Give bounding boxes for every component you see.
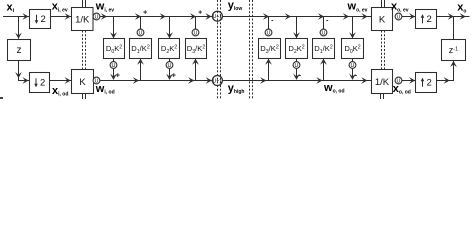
- wire D1/K2 right input rise: [323, 59, 325, 81]
- wire mid arrow bottom 1: [133, 77, 139, 84]
- svg-text:U: U: [95, 14, 99, 20]
- wire D0K2 right input drop: [352, 17, 354, 39]
- wire arrowhead into z: [15, 33, 22, 39]
- wire U to up2 top: [402, 16, 416, 18]
- upsampler bottom &uarr;2: [416, 73, 437, 93]
- svg-text:+: +: [143, 10, 147, 17]
- wire down2 to K bottom: [50, 80, 72, 82]
- wire U to bottom merge: [113, 68, 115, 79]
- corner artifact bottom-left: [0, 97, 3, 99]
- svg-text:2: 2: [40, 78, 45, 89]
- multiplier D3/K2 right: [259, 39, 281, 59]
- scaler 1/K top left: [72, 8, 94, 31]
- rounding circle U above D3/K2 right: [265, 29, 272, 36]
- wire up2 bottom to riser corner: [437, 61, 454, 81]
- rounding circle U below D0K2 right: [349, 62, 356, 69]
- wire D1/K2 left input rise: [140, 59, 142, 81]
- wire arrowhead into D2K2 left top: [166, 32, 173, 38]
- wire mid arrow bottom right 1: [260, 77, 266, 84]
- svg-text:U: U: [194, 30, 198, 36]
- svg-text:U: U: [168, 63, 172, 69]
- wire z-1 up to output merge: [453, 17, 455, 39]
- scaler 1/K bottom right: [372, 70, 393, 94]
- wire D2K2 left input drop: [169, 17, 171, 39]
- wire arrowhead into up2 bottom: [409, 77, 415, 84]
- wire U to bottom merge: [296, 68, 298, 79]
- wire U to up2 bottom: [402, 80, 416, 82]
- svg-text:2: 2: [41, 14, 46, 25]
- svg-text:K: K: [379, 14, 386, 25]
- svg-text:2: 2: [427, 78, 432, 89]
- ticks above K right: [382, 0, 385, 8]
- svg-text:U: U: [397, 14, 401, 20]
- wire merge arrowhead at top rail: [318, 13, 324, 20]
- wire mid arrow top 1: [101, 13, 107, 20]
- wire U to top merge: [268, 17, 270, 29]
- wire merge arrowhead at output junction: [448, 13, 454, 20]
- ticks below 1/K bottom right: [381, 94, 384, 100]
- rounding circle U after K right: [395, 13, 402, 20]
- multiplier D3/K2 left: [186, 39, 207, 59]
- wire arrowhead down before corner: [15, 72, 22, 78]
- wire U to top merge: [323, 17, 325, 29]
- wire mid arrow top right 1: [285, 13, 291, 20]
- wire arrowhead into 1/K: [65, 13, 71, 20]
- wire final output arrowhead: [460, 13, 466, 20]
- wire merge arrowhead at bottom rail: [166, 74, 173, 80]
- dashed pair left between scaling boxes: [83, 31, 86, 70]
- wire U to top merge: [195, 17, 197, 29]
- rounding circle U below D2K2 left: [166, 62, 173, 69]
- downsampler top &darr;2: [30, 10, 51, 29]
- wire arrowhead into D0K2 left top: [110, 32, 117, 38]
- svg-text:1/K: 1/K: [375, 77, 390, 88]
- svg-text:+: +: [198, 10, 202, 17]
- wire down2 to 1/K: [51, 16, 72, 18]
- wire mid arrow top 2: [160, 13, 166, 20]
- rounding circle U above D1/K2 left: [137, 29, 144, 36]
- wire arrowhead into z-1 bottom: [450, 61, 457, 67]
- rounding circle U below D0K2 left: [110, 62, 117, 69]
- wire arrowhead into D1/K2 left bottom: [137, 59, 144, 65]
- upsampler top &uarr;2: [416, 10, 437, 29]
- wire arrow into bottom adder circle: [206, 77, 212, 84]
- multiplier D2K2 right: [286, 39, 308, 59]
- scaler K bottom left: [72, 70, 94, 94]
- wire up2 top to output: [437, 16, 470, 18]
- wire arrowhead before riser: [444, 77, 450, 84]
- wire D3/K2 left input rise: [195, 59, 197, 81]
- svg-text:U: U: [139, 30, 143, 36]
- adder circle u+1 top: [212, 11, 222, 21]
- dashed pair right between scaling boxes: [382, 31, 385, 70]
- wire U to bottom merge: [352, 68, 354, 79]
- svg-text:+: +: [116, 73, 120, 80]
- scaler K top right: [372, 8, 393, 31]
- ticks below bottom K: [83, 94, 86, 100]
- wire z down and corner to bottom rail: [19, 61, 29, 81]
- wire D2K2 right input drop: [296, 17, 298, 39]
- wire merge arrowhead at top rail: [190, 13, 196, 20]
- wire arrow into top adder circle: [205, 13, 211, 20]
- wire D0K2 left to U: [113, 59, 115, 62]
- svg-text:K: K: [79, 77, 86, 88]
- wire arrow into K right: [361, 13, 367, 20]
- wire arrowhead into D3/K2 right bottom: [265, 59, 272, 65]
- rounding circle U below D2K2 right: [293, 62, 300, 69]
- wire U to bottom merge: [169, 68, 171, 79]
- multiplier D1/K2 left: [130, 39, 152, 59]
- svg-text:+: +: [172, 73, 176, 80]
- adder circle u+1 bottom: [212, 76, 222, 86]
- delay z: [8, 40, 31, 61]
- wire arrowhead into bottom down2: [22, 77, 28, 84]
- svg-text:z: z: [17, 45, 22, 56]
- wire merge arrowhead at bottom rail: [349, 74, 356, 80]
- multiplier D1/K2 right: [313, 39, 335, 59]
- wire bottom rail left half: [19, 80, 213, 82]
- rounding circle U above D1/K2 right: [320, 29, 327, 36]
- wire branch down to z: [18, 17, 20, 39]
- rounding circle U above D3/K2 left: [192, 29, 199, 36]
- wire D0K2 right to U: [352, 59, 354, 62]
- wire mid arrow top right 2: [343, 13, 349, 20]
- wire arrowhead into D0K2 right top: [349, 32, 356, 38]
- wire arrowhead into D2K2 right top: [293, 32, 300, 38]
- rounding circle U after 1/K right: [395, 77, 402, 84]
- wire mid arrow bottom right 2: [316, 77, 322, 84]
- svg-text:U: U: [322, 30, 326, 36]
- delay z-1: [442, 40, 466, 61]
- wire mid arrow bottom 2: [188, 77, 194, 84]
- wire arrowhead into D1/K2 right bottom: [320, 59, 327, 65]
- wire D3/K2 right input rise: [268, 59, 270, 81]
- wire merge arrowhead at bottom rail: [293, 74, 300, 80]
- wire D0K2 left input drop: [113, 17, 115, 39]
- rounding circle U after K: [93, 77, 100, 84]
- multiplier D2K2 left: [159, 39, 180, 59]
- wire U to top merge: [140, 17, 142, 29]
- wire arrowhead into top down2: [22, 13, 28, 20]
- svg-text:2: 2: [427, 14, 432, 25]
- svg-text:U: U: [267, 30, 271, 36]
- wire arrowhead into D3/K2 left bottom: [192, 59, 199, 65]
- svg-text:1/K: 1/K: [75, 14, 90, 25]
- wire arrow into 1/K right: [361, 77, 367, 84]
- multiplier D0K2 right: [342, 39, 364, 59]
- multiplier D0K2 left: [104, 39, 125, 59]
- wire D2K2 left to U: [169, 59, 171, 62]
- wire merge arrowhead at top rail: [263, 13, 269, 20]
- wire top rail right half: [222, 16, 372, 18]
- svg-text:U: U: [295, 63, 299, 69]
- wire top rail left half: [3, 16, 213, 18]
- wire merge arrowhead at top rail: [135, 13, 141, 20]
- svg-text:U: U: [112, 63, 116, 69]
- downsampler bottom &darr;2: [30, 73, 50, 93]
- wire merge arrowhead at bottom rail: [110, 74, 117, 80]
- wire D2K2 right to U: [296, 59, 298, 62]
- dashed separator pair B: [250, 0, 253, 99]
- svg-text:U: U: [351, 63, 355, 69]
- wire arrowhead into K bottom: [65, 77, 71, 84]
- ticks above 1/K: [83, 0, 86, 8]
- dashed separator pair A: [218, 0, 221, 99]
- rounding circle U after 1/K: [93, 13, 100, 20]
- wire bottom rail right half: [222, 80, 371, 82]
- wire arrowhead into up2 top: [409, 13, 415, 20]
